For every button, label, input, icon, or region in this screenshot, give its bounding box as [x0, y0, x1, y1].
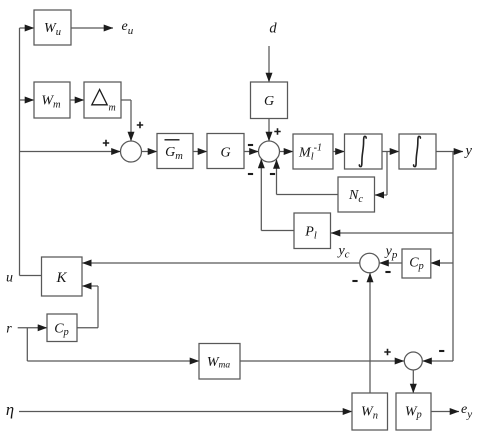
svg-text:G: G: [264, 94, 274, 109]
svg-text:η: η: [6, 400, 14, 419]
svg-text:d: d: [269, 21, 277, 37]
svg-text:G: G: [220, 146, 230, 161]
svg-text:u: u: [6, 271, 13, 286]
svg-text:K: K: [55, 270, 67, 286]
svg-text:y: y: [464, 143, 473, 159]
svg-text:m: m: [109, 103, 116, 114]
svg-text:r: r: [6, 322, 12, 337]
